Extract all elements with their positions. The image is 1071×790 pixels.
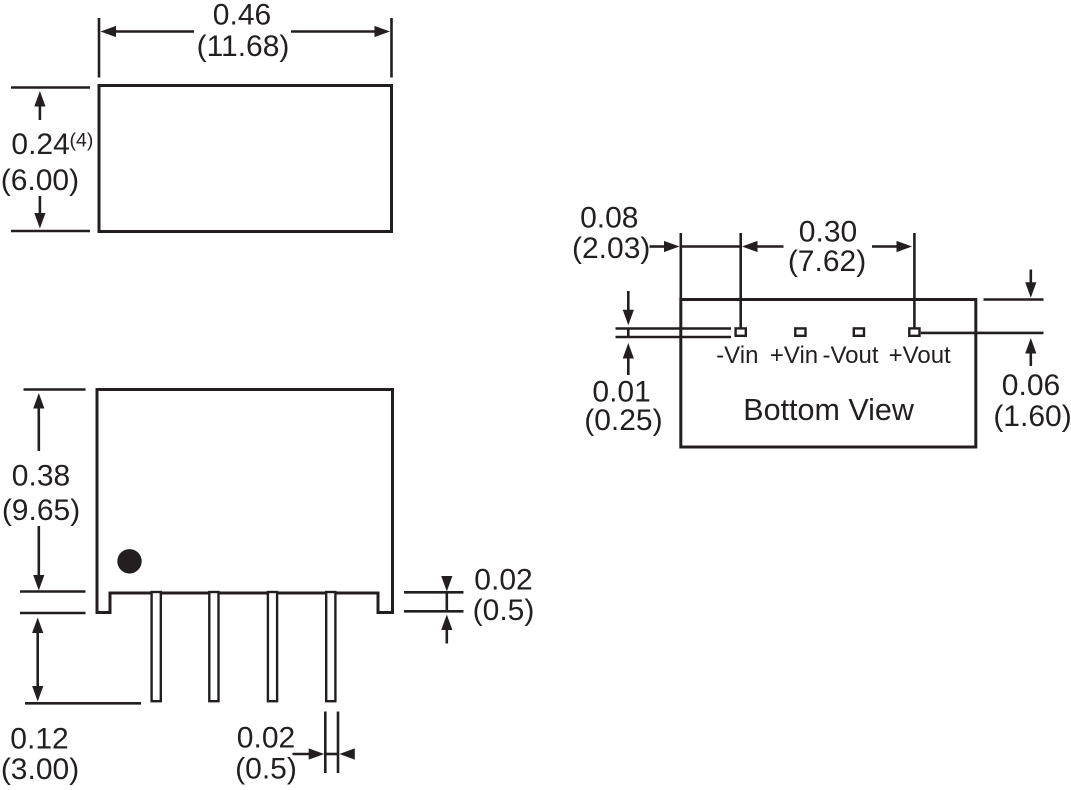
dim line 0.38 upper shaft: [37, 406, 40, 451]
pin1 indicator dot: [117, 549, 141, 573]
svg-text:(6.00): (6.00): [1, 164, 79, 197]
svg-text:0.38: 0.38: [12, 460, 70, 493]
0.30 left arrow tail: [756, 245, 784, 248]
extension line standoff upper-right: [404, 591, 464, 594]
arrowhead 0.30 left-pointing: [742, 241, 758, 252]
extension line left (0.46 dim): [98, 18, 101, 78]
arrowhead 0.06 down: [1025, 282, 1036, 298]
arrowhead 0.38 up: [33, 393, 44, 409]
arrowhead 0.30 right-pointing: [897, 241, 913, 252]
svg-text:0.46: 0.46: [213, 0, 271, 32]
svg-text:+Vin: +Vin: [770, 342, 818, 369]
dim line 0.24 lower shaft: [39, 196, 42, 215]
svg-text:(0.5): (0.5): [235, 753, 297, 786]
dimension line 0.46 left segment: [113, 30, 194, 33]
0.01 down-arrow shaft: [627, 291, 630, 312]
arrowhead pin width left-pointing: [339, 748, 355, 759]
svg-text:(7.62): (7.62): [788, 245, 866, 278]
0.01 connector: [627, 329, 630, 338]
pin 3 (side view): [268, 592, 277, 701]
svg-text:0.02: 0.02: [237, 722, 295, 755]
svg-text:+Vout: +Vout: [889, 342, 951, 369]
standoff dim connector: [445, 592, 448, 611]
0.01 up-arrow shaft: [627, 357, 630, 376]
svg-text:(2.03): (2.03): [572, 232, 650, 265]
arrowhead 0.46 right: [375, 26, 391, 37]
svg-text:(0.25): (0.25): [584, 404, 662, 437]
0.30 right arrow tail: [872, 245, 897, 248]
extension line bottom (0.12 dim): [25, 702, 141, 705]
dim line 0.08 connector: [681, 245, 741, 248]
bottom view body outline: [681, 300, 976, 448]
pin square -Vout: [854, 328, 864, 335]
pin 4 (side view): [326, 592, 335, 701]
ext line body left edge (0.08): [679, 233, 682, 298]
extension line standoff upper-left: [20, 590, 86, 593]
pin thickness line lower: [616, 336, 732, 338]
svg-text:0.08: 0.08: [580, 202, 638, 235]
svg-text:0.06: 0.06: [1002, 369, 1060, 402]
svg-text:(0.5): (0.5): [473, 594, 535, 627]
arrowhead 0.38 down: [33, 575, 44, 591]
svg-text:(1.60): (1.60): [993, 400, 1071, 433]
svg-text:(11.68): (11.68): [197, 30, 290, 63]
svg-text:0.12: 0.12: [10, 723, 68, 756]
arrowhead 0.46 left: [101, 26, 117, 37]
standoff up-arrow shaft: [445, 628, 448, 644]
dim line 0.12 shaft: [36, 631, 39, 688]
arrowhead 0.01 down: [623, 310, 634, 326]
front view body outline: [99, 86, 392, 232]
svg-text:Bottom View: Bottom View: [743, 393, 915, 427]
arrowhead 0.06 up: [1025, 338, 1036, 354]
ext line pin1 centre (0.08/0.30): [739, 233, 742, 328]
arrowhead 0.24 down: [34, 213, 45, 229]
extension line standoff lower-left: [20, 612, 86, 615]
0.06 up-arrow shaft: [1030, 352, 1033, 367]
arrowhead 0.01 up: [623, 343, 634, 359]
dimension line 0.46 right segment: [291, 30, 378, 33]
arrowhead standoff down: [441, 576, 452, 592]
svg-text:0.30: 0.30: [799, 216, 857, 249]
arrowhead 0.12 down: [32, 686, 43, 702]
pin line ext (0.06): [921, 332, 1044, 335]
svg-text:(3.00): (3.00): [1, 753, 79, 786]
arrowhead 0.24 up: [34, 91, 45, 107]
dim line 0.24 upper shaft: [39, 104, 42, 120]
pin width dim connector: [325, 753, 338, 756]
extension line bottom (0.24 dim): [11, 230, 90, 233]
arrowhead standoff up: [441, 615, 452, 631]
pin square -Vin: [736, 328, 746, 335]
side view body outline with feet: [97, 390, 393, 613]
extension line standoff lower-right: [404, 610, 464, 613]
dim line 0.38 lower shaft: [37, 526, 40, 577]
pin thickness line upper: [616, 327, 732, 329]
extension line right (0.46 dim): [390, 18, 393, 78]
pin width arrow tail: [293, 753, 311, 756]
svg-text:(4): (4): [70, 130, 94, 152]
extension line top (0.24 dim): [11, 86, 90, 89]
arrowhead pin width right-pointing: [309, 748, 325, 759]
extension line top (0.38 dim): [24, 388, 86, 391]
pin width ext line left: [324, 712, 327, 774]
svg-text:-Vin: -Vin: [716, 342, 758, 369]
pin 1 (side view): [152, 592, 161, 701]
pin width ext line right: [337, 712, 340, 774]
arrowhead 0.12 up: [32, 618, 43, 634]
svg-text:(9.65): (9.65): [2, 494, 80, 527]
svg-text:-Vout: -Vout: [822, 342, 878, 369]
pin 2 (side view): [209, 592, 218, 701]
arrowhead 0.08 right-pointing: [664, 241, 680, 252]
top edge ext line (0.06): [984, 298, 1044, 301]
ext line pin4 centre (0.30): [913, 233, 916, 328]
pin square +Vin: [795, 328, 805, 335]
svg-text:0.24: 0.24: [11, 128, 69, 161]
pin square +Vout: [909, 328, 919, 335]
0.08 arrow tail: [650, 245, 666, 248]
svg-text:0.02: 0.02: [474, 564, 532, 597]
0.06 down-arrow shaft: [1030, 270, 1033, 286]
